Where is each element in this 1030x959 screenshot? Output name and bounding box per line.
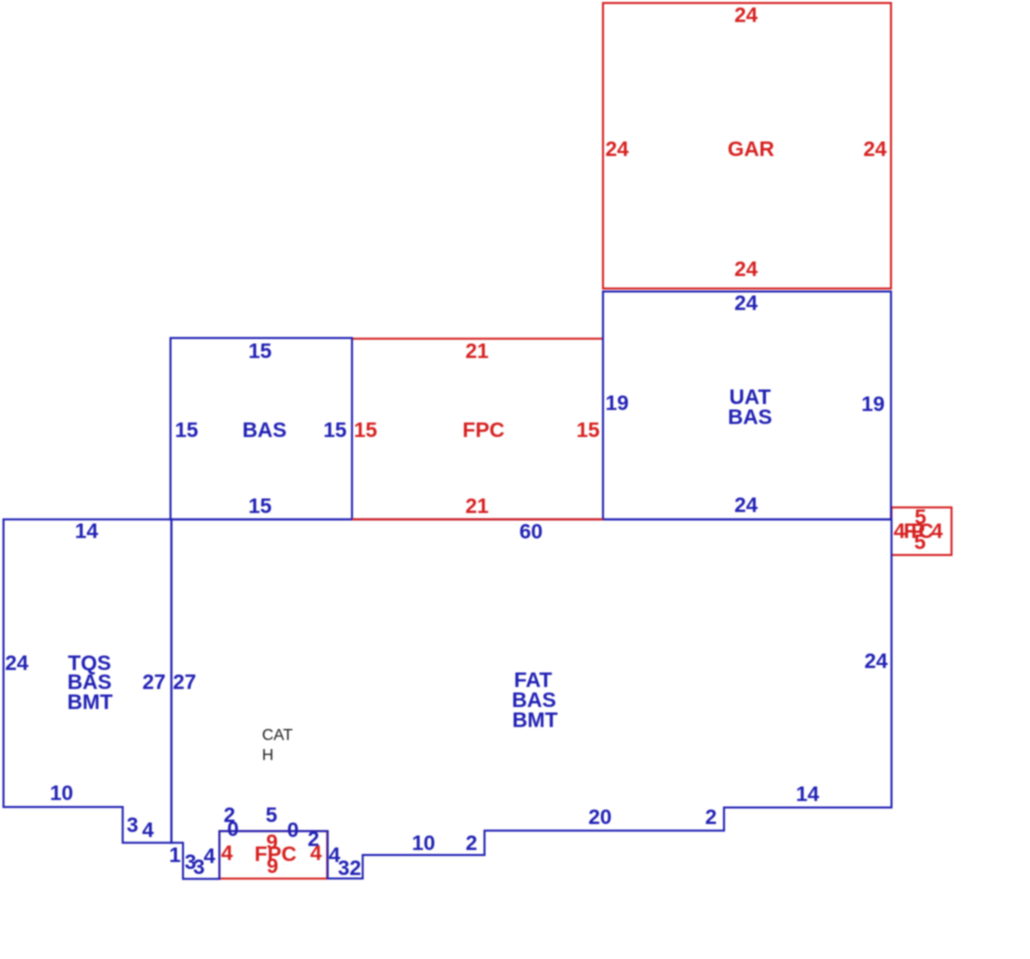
svg-text:3: 3 bbox=[127, 814, 139, 837]
svg-text:4: 4 bbox=[329, 844, 341, 867]
svg-text:15: 15 bbox=[175, 419, 199, 442]
bottom FPC rect (red) bbox=[219, 831, 327, 879]
red overlay: FPC mid bottom edge over blue line bbox=[352, 518, 603, 520]
svg-text:24: 24 bbox=[734, 4, 758, 27]
svg-text:BAS: BAS bbox=[728, 406, 772, 429]
svg-text:15: 15 bbox=[576, 419, 600, 442]
svg-text:24: 24 bbox=[5, 652, 29, 675]
svg-text:0: 0 bbox=[287, 819, 299, 842]
svg-text:5: 5 bbox=[914, 531, 926, 554]
svg-text:CAT: CAT bbox=[262, 727, 293, 744]
svg-text:21: 21 bbox=[465, 495, 489, 518]
GAR rect bbox=[603, 3, 891, 289]
svg-text:24: 24 bbox=[864, 650, 888, 673]
svg-text:5: 5 bbox=[266, 804, 278, 827]
svg-text:27: 27 bbox=[142, 671, 165, 694]
right FPC rect (red) bbox=[892, 507, 952, 555]
svg-text:10: 10 bbox=[50, 782, 73, 805]
svg-text:GAR: GAR bbox=[728, 138, 775, 161]
svg-text:24: 24 bbox=[734, 258, 758, 281]
svg-text:2: 2 bbox=[308, 828, 320, 851]
svg-text:15: 15 bbox=[248, 495, 272, 518]
svg-text:4: 4 bbox=[142, 819, 154, 842]
svg-text:FPC: FPC bbox=[463, 419, 505, 442]
svg-text:24: 24 bbox=[734, 494, 758, 517]
svg-text:15: 15 bbox=[323, 419, 347, 442]
svg-text:27: 27 bbox=[173, 671, 196, 694]
svg-text:BAS: BAS bbox=[242, 419, 286, 442]
FPC mid rect (red) bbox=[352, 339, 603, 520]
svg-text:H: H bbox=[262, 747, 274, 764]
svg-text:19: 19 bbox=[605, 392, 628, 415]
BAS rect (blue) bbox=[171, 338, 353, 519]
svg-text:9: 9 bbox=[267, 855, 279, 878]
TQS polygon (blue) bbox=[4, 519, 172, 842]
svg-text:24: 24 bbox=[605, 138, 629, 161]
svg-text:1: 1 bbox=[169, 844, 181, 867]
svg-text:4: 4 bbox=[221, 842, 233, 865]
svg-text:14: 14 bbox=[75, 520, 99, 543]
svg-text:BMT: BMT bbox=[512, 709, 558, 732]
svg-text:24: 24 bbox=[863, 138, 887, 161]
svg-text:24: 24 bbox=[734, 292, 758, 315]
svg-text:10: 10 bbox=[412, 832, 435, 855]
svg-text:2: 2 bbox=[466, 832, 478, 855]
svg-text:2: 2 bbox=[705, 806, 717, 829]
svg-text:32: 32 bbox=[338, 857, 361, 880]
svg-text:0: 0 bbox=[227, 818, 239, 841]
svg-text:15: 15 bbox=[248, 340, 272, 363]
svg-text:19: 19 bbox=[861, 393, 884, 416]
svg-text:14: 14 bbox=[796, 783, 820, 806]
svg-text:60: 60 bbox=[519, 521, 542, 544]
svg-text:BMT: BMT bbox=[67, 691, 113, 714]
UAT BAS rect (blue) bbox=[603, 292, 891, 520]
svg-text:15: 15 bbox=[354, 419, 378, 442]
svg-text:21: 21 bbox=[465, 340, 489, 363]
svg-text:4: 4 bbox=[931, 520, 943, 543]
svg-text:20: 20 bbox=[588, 806, 611, 829]
FAT BAS BMT polygon (blue) bbox=[171, 519, 891, 879]
svg-text:4: 4 bbox=[204, 845, 216, 868]
